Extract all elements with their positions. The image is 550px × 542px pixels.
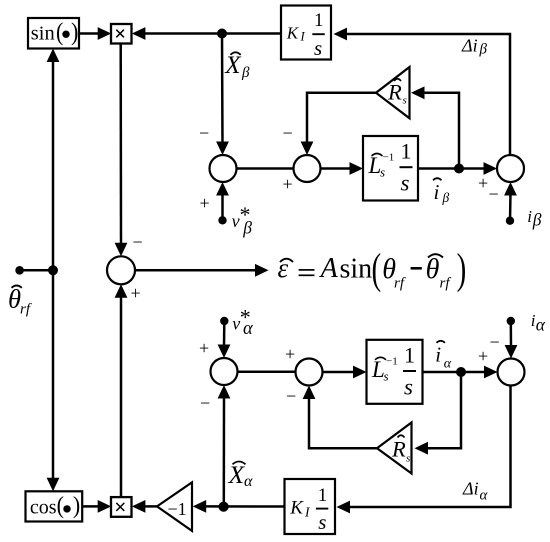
node: i_alpha source dot	[507, 317, 515, 325]
svg-text:−1: −1	[386, 355, 398, 367]
label plus (beta error sum bottom)	[200, 193, 210, 213]
svg-text:cos: cos	[30, 496, 57, 518]
svg-text:+: +	[478, 173, 488, 193]
wire: bottom multiplier output up to central sum	[115, 284, 128, 497]
cos block	[26, 491, 83, 521]
wire: sin output to top multiplier	[79, 27, 111, 40]
sin block	[28, 18, 79, 49]
wire: i_alpha down into alpha compare sum	[505, 321, 518, 359]
wire: v_alpha* down into alpha error sum	[218, 321, 231, 358]
svg-text:−1: −1	[383, 152, 395, 164]
svg-text:s: s	[380, 165, 385, 180]
label i_alpha	[531, 311, 546, 335]
wire: i_beta up into beta compare sum	[504, 182, 517, 221]
svg-text:α: α	[243, 319, 254, 339]
summing junction: beta model sum	[294, 155, 321, 182]
svg-text:−: −	[283, 123, 293, 143]
svg-text:1: 1	[404, 342, 415, 367]
svg-text:I: I	[300, 30, 306, 44]
svg-text:−: −	[286, 386, 296, 406]
label v_beta*	[232, 202, 253, 238]
summing junction: alpha model sum	[296, 359, 323, 386]
wire: central sum output (epsilon)	[135, 264, 269, 277]
gain block L^-1 1/s (alpha)	[367, 340, 423, 404]
label plus (alpha error sum top)	[199, 338, 209, 358]
label minus (beta compare sum)	[489, 184, 499, 204]
gain triangle -1 inverter	[157, 482, 192, 531]
label theta_rf_hat	[8, 283, 32, 317]
wire: X_alpha up into alpha error sum	[218, 385, 231, 506]
svg-text:+: +	[200, 193, 210, 213]
node: i_beta_hat junction	[454, 164, 464, 174]
wire: L block output to alpha compare sum	[423, 366, 498, 379]
label plus (alpha compare sum)	[478, 346, 488, 366]
svg-text:−: −	[200, 393, 210, 413]
svg-text:K: K	[289, 498, 304, 519]
svg-text:i: i	[435, 343, 441, 367]
multiplier (bottom)	[111, 497, 132, 517]
svg-text:ε: ε	[278, 253, 289, 283]
node: v_beta* source dot	[218, 216, 226, 224]
summing junction: alpha compare sum	[498, 359, 525, 386]
svg-text:−1: −1	[168, 499, 187, 519]
svg-text:): )	[71, 18, 78, 46]
wire: i_alpha branch down into Rs triangle	[415, 372, 462, 455]
label plus (alpha model sum top)	[285, 344, 295, 364]
svg-text:s: s	[403, 95, 407, 107]
gain triangle Rs (beta)	[376, 67, 410, 118]
wire: inverter output to bottom multiplier	[132, 500, 157, 513]
summing junction: alpha error sum	[211, 358, 238, 385]
wire: delta i_beta feedback into KI (top)	[334, 28, 511, 156]
svg-text:α: α	[536, 315, 546, 335]
svg-text:s: s	[404, 374, 413, 399]
wire: Rs feedback up into alpha model sum	[303, 386, 378, 449]
label delta i_beta	[461, 36, 488, 58]
label i_beta_hat	[433, 178, 450, 205]
svg-text:): )	[457, 244, 467, 293]
label delta i_alpha	[462, 479, 489, 504]
svg-text:+: +	[478, 346, 488, 366]
svg-text:−: −	[489, 184, 499, 204]
svg-text:sin: sin	[31, 23, 55, 45]
multiplier (top)	[111, 24, 132, 44]
node: X_alpha junction (bottom)	[219, 502, 229, 512]
label i_alpha_hat	[435, 341, 452, 372]
node: v_alpha* source dot	[220, 317, 228, 325]
svg-text:v: v	[232, 211, 240, 231]
node: theta junction on vertical line	[48, 265, 58, 275]
svg-text:+: +	[283, 174, 293, 194]
wire: top multiplier output down to central sum	[115, 43, 128, 256]
wire: theta_rf input to vertical line	[20, 269, 53, 272]
wire: delta i_alpha feedback into KI (bottom)	[337, 386, 511, 514]
svg-text:s: s	[384, 368, 389, 383]
svg-text:β: β	[532, 210, 542, 230]
svg-text:α: α	[244, 473, 253, 490]
wire: cos output to bottom multiplier	[82, 500, 111, 513]
wire: X_beta down to beta error sum	[216, 34, 229, 156]
svg-text:(: (	[372, 244, 382, 293]
svg-text:+: +	[285, 344, 295, 364]
svg-text:s: s	[314, 36, 322, 60]
label minus (beta model sum top)	[283, 123, 293, 143]
svg-text:A: A	[319, 253, 339, 284]
wire: theta vertical line to sin and cos	[47, 49, 60, 492]
svg-text:i: i	[527, 207, 532, 226]
svg-text:β: β	[242, 217, 252, 237]
svg-text:R: R	[387, 80, 402, 105]
gain block L^-1 1/s (beta)	[363, 136, 418, 201]
svg-text:1: 1	[318, 485, 328, 506]
svg-text:Δi: Δi	[462, 479, 479, 499]
integrator block KI 1/s (bottom)	[285, 479, 336, 534]
wire: L block output to beta compare sum	[418, 162, 497, 175]
svg-text:i: i	[434, 180, 440, 204]
svg-text:sin: sin	[340, 254, 373, 285]
wire: beta error sum to beta model sum	[237, 167, 294, 170]
summing junction: central sum	[107, 256, 135, 284]
wire: alpha error sum to alpha model sum	[238, 371, 296, 374]
label i_beta	[527, 207, 542, 230]
wire: KI output line to top multiplier (X_beta net)	[132, 27, 281, 40]
label plus (beta model sum left-bottom)	[283, 174, 293, 194]
label minus (central sum top)	[133, 232, 143, 252]
wire: i_beta branch up into Rs triangle	[411, 86, 459, 168]
svg-text:β: β	[442, 190, 450, 205]
integrator block KI 1/s (top)	[281, 6, 331, 61]
summing junction: beta compare sum	[497, 155, 524, 182]
label v_alpha*	[232, 305, 254, 340]
wire: beta model sum to L block	[321, 162, 364, 175]
svg-text:): )	[73, 492, 80, 519]
node: theta_rf input dot	[15, 266, 24, 275]
node: i_beta source dot	[506, 217, 514, 225]
svg-text:β: β	[479, 42, 488, 58]
svg-text:Δi: Δi	[461, 36, 478, 56]
svg-text:s: s	[406, 453, 410, 465]
svg-text:X: X	[224, 52, 242, 79]
label minus (alpha compare sum)	[490, 332, 500, 352]
svg-text:s: s	[318, 510, 326, 534]
svg-text:+: +	[131, 283, 141, 303]
label minus (beta error sum top)	[199, 123, 209, 143]
gain triangle Rs (alpha)	[377, 423, 412, 474]
node: X_beta junction	[217, 29, 227, 39]
summing junction: beta error sum	[210, 155, 237, 182]
svg-text:−: −	[490, 332, 500, 352]
svg-text:+: +	[199, 338, 209, 358]
label X_beta (hat)	[224, 52, 250, 81]
label minus (alpha error sum bottom)	[200, 393, 210, 413]
svg-text:α: α	[480, 488, 489, 504]
label minus (alpha model sum bottom)	[286, 386, 296, 406]
wire: alpha model sum to L block	[323, 366, 367, 379]
svg-text:X: X	[228, 460, 246, 489]
svg-text:β: β	[241, 65, 250, 81]
svg-text:−: −	[199, 123, 209, 143]
svg-text:−: −	[133, 232, 143, 252]
svg-text:(: (	[57, 492, 65, 519]
svg-text:R: R	[391, 437, 406, 462]
svg-text:s: s	[401, 171, 410, 196]
wire: KI output (bottom) to inverter	[193, 500, 285, 513]
svg-text:α: α	[444, 356, 452, 371]
svg-text:(: (	[56, 18, 63, 46]
svg-text:K: K	[286, 24, 300, 43]
label plus (central sum bottom)	[131, 283, 141, 303]
label X_alpha (hat)	[228, 460, 254, 490]
equation epsilon = A sin(theta_rf - theta_rf_hat)	[278, 244, 467, 293]
svg-text:1: 1	[314, 10, 324, 31]
wire: v_beta* up into beta error sum	[216, 182, 229, 220]
label plus (beta compare sum)	[478, 173, 488, 193]
svg-text:θ: θ	[426, 254, 440, 285]
svg-text:1: 1	[401, 139, 412, 164]
node: i_alpha_hat junction	[456, 367, 466, 377]
wire: Rs feedback into beta model sum	[301, 93, 376, 155]
